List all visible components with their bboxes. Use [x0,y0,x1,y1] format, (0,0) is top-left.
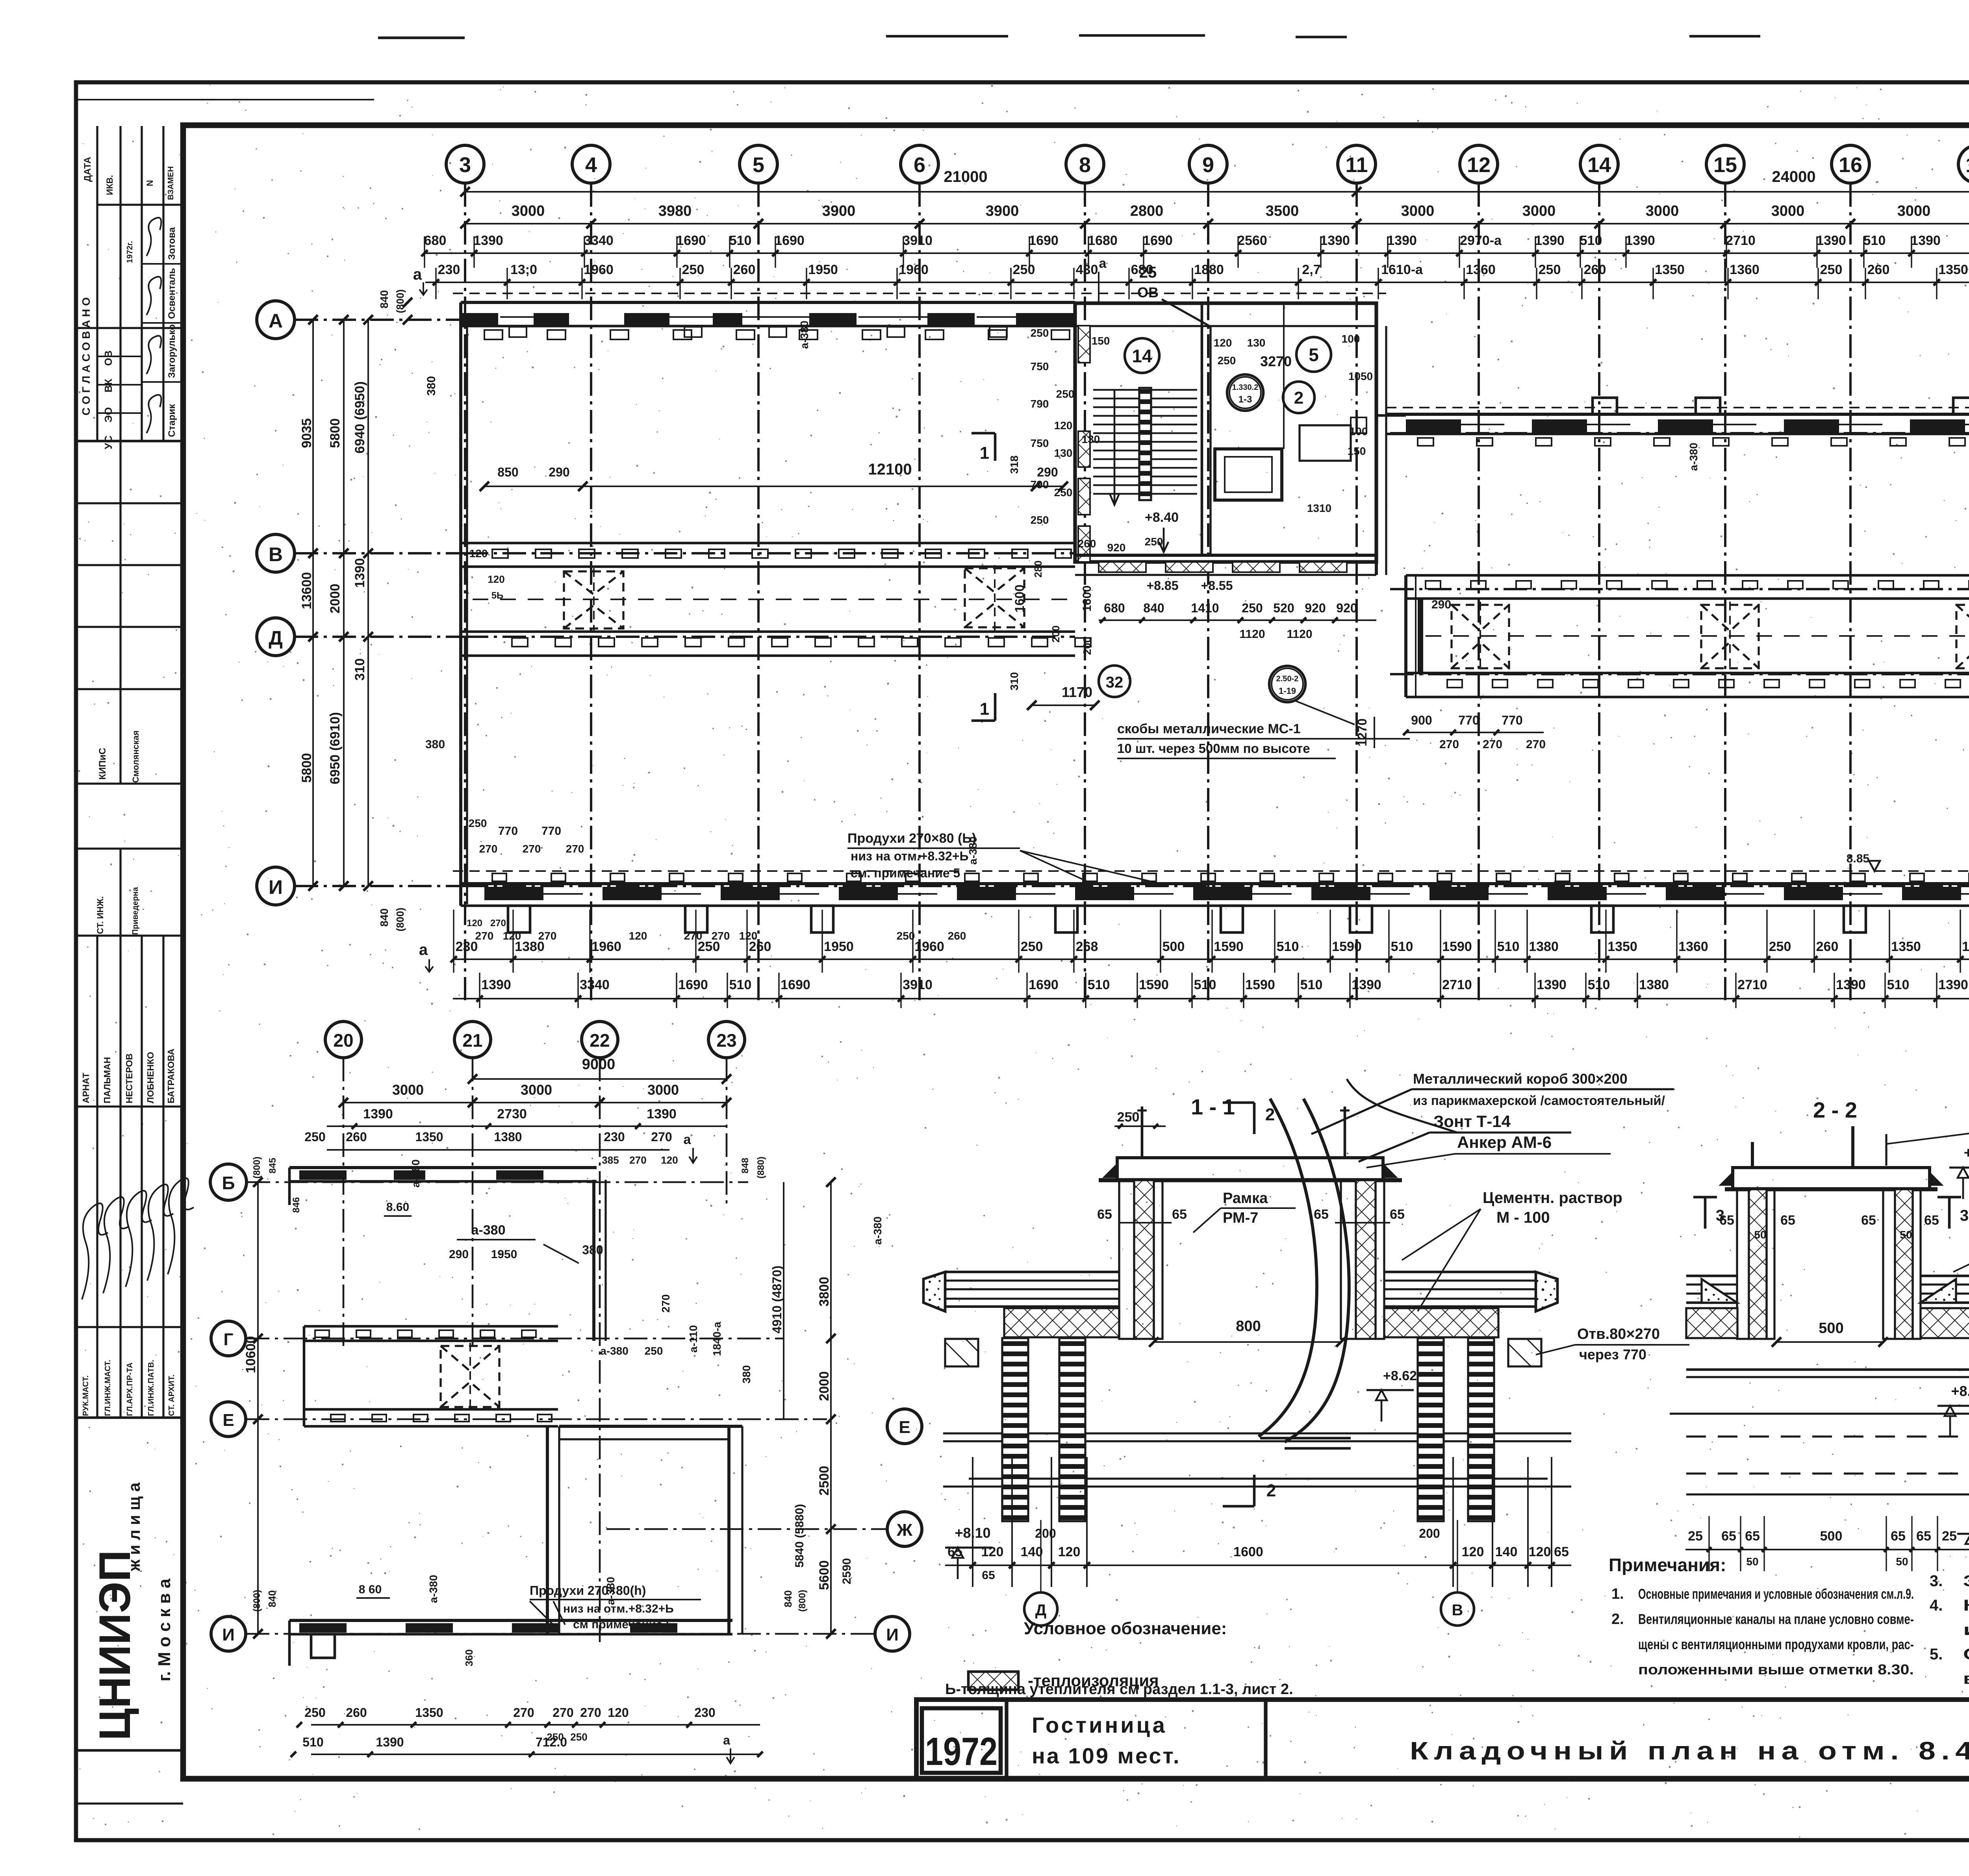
svg-text:770: 770 [541,825,561,838]
svg-text:250: 250 [1031,514,1049,526]
svg-text:1390: 1390 [1352,977,1381,992]
svg-text:ЦНИИЭП: ЦНИИЭП [90,1550,139,1741]
svg-text:270: 270 [553,1705,573,1720]
svg-text:Заделку анкера АМ-6 см.узел Б,: Заделку анкера АМ-6 см.узел Б, лист 6, р… [1963,1572,1969,1590]
svg-text:1390: 1390 [473,233,503,248]
svg-text:а-380: а-380 [871,1216,884,1245]
svg-text:840: 840 [266,1590,278,1607]
svg-text:680: 680 [424,233,447,248]
svg-text:Освенталь: Освенталь [167,268,177,319]
svg-text:9035: 9035 [299,418,314,448]
svg-text:250: 250 [1013,262,1035,277]
svg-text:ВК: ВК [102,379,114,393]
svg-text:3: 3 [459,153,471,177]
svg-text:Цементн. раствор: Цементн. раствор [1483,1189,1622,1207]
svg-text:2560: 2560 [1237,233,1267,248]
svg-text:50: 50 [1754,1229,1766,1241]
svg-text:3900: 3900 [986,203,1019,219]
svg-text:65: 65 [1390,1207,1405,1222]
svg-text:1590: 1590 [1245,977,1275,992]
svg-text:500: 500 [1820,1529,1843,1544]
svg-text:1390: 1390 [352,558,367,588]
svg-text:8.60: 8.60 [386,1201,409,1214]
svg-text:а-380: а-380 [471,1223,506,1238]
svg-text:140: 140 [1021,1544,1043,1559]
svg-text:СТ. АРХИТ.: СТ. АРХИТ. [167,1375,176,1416]
svg-text:3: 3 [1960,1207,1969,1224]
svg-text:скобы металлические МС-1: скобы металлические МС-1 [1117,721,1301,736]
svg-text:9000: 9000 [582,1056,616,1073]
svg-text:а-380: а-380 [427,1575,439,1603]
svg-text:845: 845 [267,1158,278,1173]
svg-text:250: 250 [1056,388,1075,400]
svg-text:790: 790 [1031,398,1049,410]
svg-text:РМ-7: РМ-7 [1223,1210,1258,1226]
svg-text:Приведерна: Приведерна [131,887,140,935]
svg-text:250: 250 [682,262,705,277]
svg-text:270: 270 [629,1154,646,1166]
svg-text:6950 (6910): 6950 (6910) [328,712,343,784]
svg-text:1390: 1390 [1816,233,1846,248]
svg-text:120: 120 [1058,1544,1081,1559]
svg-text:1390: 1390 [363,1107,393,1122]
svg-text:380: 380 [425,376,438,396]
svg-text:250: 250 [304,1705,325,1720]
svg-text:250: 250 [469,817,487,829]
svg-text:510: 510 [1887,977,1910,992]
svg-text:380: 380 [425,738,445,751]
svg-text:ж и л и щ а: ж и л и щ а [125,1482,143,1572]
svg-text:520: 520 [1273,601,1294,615]
svg-text:510: 510 [1391,939,1413,954]
svg-text:Загорулько: Загорулько [167,324,177,378]
svg-text:100: 100 [1342,333,1360,345]
svg-text:270: 270 [651,1130,672,1144]
svg-text:250: 250 [1539,262,1561,277]
svg-text:200: 200 [1035,1526,1056,1540]
svg-text:3000: 3000 [1522,203,1556,219]
svg-text:9: 9 [1202,153,1214,177]
svg-text:2710: 2710 [1442,977,1472,992]
svg-text:1360: 1360 [1678,939,1708,954]
svg-text:230: 230 [438,262,460,277]
svg-text:24000: 24000 [1772,168,1815,185]
svg-text:ПАЛЬМАН: ПАЛЬМАН [102,1057,112,1103]
svg-text:3340: 3340 [584,233,614,248]
svg-text:250: 250 [304,1130,325,1144]
svg-text:1390: 1390 [1911,233,1941,248]
svg-text:5800: 5800 [328,418,343,448]
svg-text:2.50-2: 2.50-2 [1276,675,1299,683]
svg-text:Металлический короб 300×200: Металлический короб 300×200 [1413,1071,1628,1087]
svg-text:+8.40: +8.40 [1145,510,1179,525]
svg-text:510: 510 [1194,977,1216,992]
svg-text:2970-а: 2970-а [1460,233,1502,248]
svg-text:см. примечание 5: см. примечание 5 [851,866,960,880]
svg-text:2710: 2710 [1737,977,1767,992]
svg-text:318: 318 [1008,456,1020,474]
svg-text:260: 260 [1867,262,1890,277]
svg-text:5600: 5600 [817,1560,832,1590]
svg-text:3270: 3270 [1260,353,1292,369]
svg-text:12100: 12100 [868,461,912,478]
svg-text:50: 50 [1900,1229,1912,1241]
svg-text:100: 100 [1350,425,1368,437]
svg-text:260: 260 [346,1130,367,1144]
svg-text:Ж: Ж [896,1520,912,1540]
svg-text:510: 510 [729,977,752,992]
svg-text:21: 21 [462,1030,482,1051]
svg-text:(800): (800) [394,289,406,313]
svg-text:5Ь: 5Ь [491,590,504,601]
svg-text:260: 260 [733,262,756,277]
svg-text:1360: 1360 [1730,262,1759,277]
svg-text:130: 130 [1054,447,1073,459]
svg-text:290: 290 [1431,598,1451,611]
svg-text:2500: 2500 [817,1466,832,1496]
svg-text:65: 65 [1172,1207,1187,1222]
svg-text:130: 130 [1082,433,1100,445]
svg-text:2000: 2000 [817,1371,832,1401]
svg-text:ИКВ.: ИКВ. [105,175,115,195]
svg-text:230: 230 [456,939,478,954]
svg-text:3800: 3800 [817,1277,832,1307]
svg-text:1350: 1350 [1938,262,1968,277]
svg-text:120: 120 [739,930,758,942]
svg-text:ОВ: ОВ [1137,284,1159,300]
svg-text:ГЛ.ИНЖ.ПАТВ.: ГЛ.ИНЖ.ПАТВ. [147,1360,156,1416]
svg-text:2000: 2000 [328,584,343,614]
svg-text:12: 12 [1467,153,1491,177]
svg-text:низ на отм.+8.32+Ь: низ на отм.+8.32+Ь [851,849,968,863]
svg-text:770: 770 [498,825,518,838]
svg-text:250: 250 [1218,354,1236,367]
svg-text:840: 840 [1143,601,1164,615]
svg-text:3000: 3000 [512,203,545,219]
svg-text:21000: 21000 [944,168,987,185]
svg-text:В: В [1452,1602,1463,1619]
svg-text:ЭО: ЭО [102,407,114,423]
svg-text:2,7: 2,7 [1302,262,1320,277]
svg-text:1.330.2: 1.330.2 [1232,383,1259,392]
svg-text:270: 270 [479,843,498,855]
svg-text:УС: УС [102,436,114,449]
svg-text:через 770: через 770 [1579,1346,1646,1363]
svg-text:1690: 1690 [676,233,706,248]
svg-text:270: 270 [1483,738,1502,751]
svg-text:из кирпича марки 75 на раствор: из кирпича марки 75 на растворе марки 50… [1963,1621,1969,1639]
svg-text:1410: 1410 [1191,601,1219,615]
svg-text:1590: 1590 [1332,939,1362,954]
svg-text:СТ. ИНЖ.: СТ. ИНЖ. [95,896,105,934]
svg-text:И: И [269,876,283,898]
svg-text:низ на отм.+8.32+Ь: низ на отм.+8.32+Ь [563,1602,674,1615]
svg-text:АРНАТ: АРНАТ [81,1073,91,1103]
svg-text:1350: 1350 [415,1130,443,1144]
svg-text:3000: 3000 [1646,203,1679,219]
svg-text:Отв.80×270: Отв.80×270 [1577,1326,1660,1342]
svg-text:8: 8 [1079,153,1091,177]
svg-text:1120: 1120 [1239,628,1265,641]
svg-text:5.: 5. [1930,1646,1943,1663]
svg-text:1360: 1360 [1466,262,1496,277]
svg-text:И: И [886,1625,899,1644]
svg-text:65: 65 [1861,1213,1876,1228]
svg-text:2730: 2730 [497,1107,527,1122]
svg-text:65: 65 [1891,1529,1906,1544]
svg-text:230: 230 [604,1130,625,1144]
svg-text:14: 14 [1587,153,1611,177]
svg-text:а-110: а-110 [687,1325,699,1353]
svg-text:840: 840 [378,908,390,927]
svg-text:ОВ: ОВ [102,350,114,366]
svg-text:+8.55: +8.55 [1201,578,1233,593]
svg-text:150: 150 [1092,335,1110,347]
svg-text:ГЛ.ИНЖ.МАСТ.: ГЛ.ИНЖ.МАСТ. [104,1360,112,1416]
svg-text:ЛОБНЕНКО: ЛОБНЕНКО [145,1052,156,1103]
svg-text:Е: Е [899,1418,910,1437]
svg-text:13;0: 13;0 [510,262,537,277]
svg-text:500: 500 [1819,1320,1843,1337]
svg-text:270: 270 [475,930,494,942]
svg-text:250: 250 [1242,601,1263,615]
svg-text:5: 5 [753,153,764,177]
svg-text:3340: 3340 [580,977,610,992]
svg-text:г. М о с к в а: г. М о с к в а [155,1578,174,1681]
svg-text:1390: 1390 [1537,977,1567,992]
svg-text:65: 65 [1314,1207,1329,1222]
svg-text:120: 120 [503,930,521,942]
svg-text:а: а [723,1733,730,1747]
svg-text:1950: 1950 [491,1248,517,1261]
svg-text:1.: 1. [1611,1586,1624,1602]
svg-text:140: 140 [1495,1544,1518,1559]
svg-text:280: 280 [1032,560,1044,577]
svg-text:750: 750 [1031,360,1049,373]
svg-text:5: 5 [1309,345,1319,365]
svg-text:2: 2 [1294,388,1303,408]
svg-text:Анкер АМ-6: Анкер АМ-6 [1457,1133,1552,1151]
svg-text:1350: 1350 [1891,939,1921,954]
svg-text:1350: 1350 [1607,939,1637,954]
svg-text:65: 65 [1745,1529,1760,1544]
svg-text:А: А [269,310,283,332]
svg-text:С О Г Л А С О В А Н О: С О Г Л А С О В А Н О [80,297,92,415]
svg-text:310: 310 [352,658,367,681]
svg-text:260: 260 [1816,939,1839,954]
svg-text:250: 250 [1021,939,1043,954]
svg-text:1390: 1390 [1387,233,1417,248]
svg-text:1590: 1590 [1214,939,1244,954]
svg-text:250: 250 [570,1731,587,1743]
svg-text:8 60: 8 60 [359,1583,382,1596]
svg-text:1380: 1380 [1529,939,1559,954]
svg-text:1880: 1880 [1194,262,1224,277]
svg-text:3900: 3900 [822,203,856,219]
svg-text:120: 120 [1214,337,1232,349]
svg-text:310: 310 [1008,672,1020,691]
svg-text:120: 120 [629,930,647,942]
svg-text:32: 32 [1106,674,1124,691]
svg-text:65: 65 [1721,1529,1736,1544]
svg-text:1972: 1972 [925,1730,997,1774]
svg-text:1 - 1: 1 - 1 [1191,1094,1235,1119]
svg-text:200: 200 [1081,637,1093,655]
svg-text:270: 270 [538,930,557,942]
svg-text:270: 270 [660,1294,672,1313]
svg-text:510: 510 [1088,977,1110,992]
svg-text:770: 770 [1458,713,1479,727]
svg-text:1-3: 1-3 [1239,394,1252,405]
svg-text:14: 14 [1132,346,1152,366]
svg-text:1690: 1690 [781,977,810,992]
svg-text:4: 4 [585,153,597,177]
svg-text:250: 250 [1145,536,1163,548]
svg-text:а-380: а-380 [967,836,979,865]
svg-text:10600: 10600 [243,1336,258,1374]
svg-text:120: 120 [1054,419,1073,432]
svg-text:120: 120 [608,1705,629,1720]
svg-text:120: 120 [661,1154,678,1166]
svg-text:на 109 мест.: на 109 мест. [1032,1743,1181,1768]
svg-text:500: 500 [1162,939,1185,954]
svg-text:510: 510 [1863,233,1886,248]
svg-text:25: 25 [1942,1529,1957,1544]
svg-text:900: 900 [1411,713,1432,727]
svg-text:Е: Е [222,1411,234,1430]
svg-text:1840-а: 1840-а [711,1322,723,1356]
svg-text:4910 (4870): 4910 (4870) [770,1266,784,1334]
svg-text:25: 25 [1688,1529,1703,1544]
svg-text:680: 680 [1104,601,1125,615]
svg-text:270: 270 [490,918,506,929]
svg-text:840: 840 [782,1590,794,1607]
svg-text:1-19: 1-19 [1279,686,1296,696]
svg-text:65: 65 [947,1544,962,1559]
svg-text:1310: 1310 [1307,502,1331,514]
svg-text:+8.62: +8.62 [1951,1383,1969,1399]
svg-text:10 шт. через 500мм по высоте: 10 шт. через 500мм по высоте [1117,741,1310,756]
svg-text:510: 510 [1580,233,1602,248]
svg-text:510: 510 [1300,977,1323,992]
svg-text:920: 920 [1336,601,1357,615]
svg-text:510: 510 [1497,939,1520,954]
svg-text:щены с вентиляционными продуха: щены с вентиляционными продухами кровли,… [1638,1636,1914,1652]
svg-text:846: 846 [291,1197,302,1213]
svg-text:120: 120 [467,918,482,929]
svg-text:920: 920 [1107,541,1126,554]
svg-text:23: 23 [716,1030,736,1051]
svg-text:ДАТА: ДАТА [82,157,93,182]
svg-text:+8.85: +8.85 [1147,578,1179,593]
svg-text:Вентиляционные каналы на плане: Вентиляционные каналы на плане условно с… [1638,1611,1914,1627]
svg-text:1390: 1390 [1938,977,1968,992]
svg-text:65: 65 [1554,1544,1569,1559]
svg-text:1960: 1960 [914,939,944,954]
svg-text:200: 200 [1050,625,1062,642]
svg-text:270: 270 [523,843,541,855]
svg-text:Основные примечания и условные: Основные примечания и условные обозначен… [1638,1586,1914,1602]
svg-text:15: 15 [1713,153,1737,177]
svg-text:3910: 3910 [903,233,933,248]
svg-text:150: 150 [1348,445,1366,457]
svg-text:1270: 1270 [1355,718,1369,746]
svg-text:БАТРАКОВА: БАТРАКОВА [166,1049,176,1103]
svg-text:270: 270 [684,930,703,942]
svg-text:380: 380 [740,1365,753,1384]
svg-text:1390: 1390 [481,977,511,992]
svg-text:а: а [419,941,428,958]
svg-text:1950: 1950 [808,262,838,277]
svg-text:3980: 3980 [658,203,692,219]
svg-text:Д: Д [1035,1602,1047,1619]
svg-text:360: 360 [463,1649,475,1666]
svg-text:270: 270 [712,930,730,942]
svg-text:Отметки продухов на фасаду при: Отметки продухов на фасаду принимать с у… [1963,1646,1969,1663]
svg-text:120: 120 [488,573,504,585]
svg-text:380: 380 [582,1243,603,1257]
svg-text:260: 260 [1584,262,1606,277]
svg-text:260: 260 [1078,538,1096,550]
svg-text:11: 11 [1345,153,1368,177]
svg-text:ГЛ.АРХ.ПР-ТА: ГЛ.АРХ.ПР-ТА [126,1363,134,1416]
svg-text:510: 510 [1588,977,1610,992]
svg-text:И: И [222,1625,235,1644]
svg-text:1120: 1120 [1287,628,1312,641]
svg-text:ВЗАМЕН: ВЗАМЕН [167,166,175,200]
svg-text:1350: 1350 [1655,262,1685,277]
svg-text:16: 16 [1839,153,1862,177]
svg-text:Зотова: Зотова [167,227,177,260]
svg-text:Кладочный план на отм.: Кладочный план на отм. 8.40 [1410,1737,1969,1765]
svg-text:840: 840 [378,290,390,309]
svg-text:Рамка: Рамка [1223,1190,1268,1207]
svg-text:1590: 1590 [1139,977,1169,992]
svg-text:(880): (880) [756,1157,766,1179]
svg-text:6: 6 [914,153,925,177]
svg-text:510: 510 [302,1735,323,1749]
svg-text:20: 20 [333,1030,353,1051]
svg-text:1390: 1390 [376,1735,404,1749]
svg-text:2710: 2710 [1726,233,1756,248]
svg-text:(800): (800) [797,1590,808,1612]
svg-text:1170: 1170 [1062,684,1092,700]
svg-text:712.0: 712.0 [536,1735,567,1749]
svg-text:1690: 1690 [678,977,708,992]
svg-text:1690: 1690 [1143,233,1173,248]
svg-text:N: N [145,180,155,186]
svg-text:1380: 1380 [494,1130,522,1144]
svg-text:65: 65 [1916,1529,1931,1544]
svg-text:(800): (800) [394,908,406,932]
svg-text:см примечание 5: см примечание 5 [573,1618,673,1631]
svg-text:1: 1 [980,699,989,719]
svg-text:5840 (5880): 5840 (5880) [793,1504,806,1568]
svg-text:120: 120 [981,1544,1004,1559]
svg-text:2590: 2590 [840,1558,853,1585]
svg-text:1390: 1390 [1320,233,1350,248]
svg-text:(800): (800) [252,1590,262,1612]
svg-text:250: 250 [1820,262,1843,277]
svg-text:290: 290 [549,465,569,479]
svg-text:1600: 1600 [1012,584,1027,612]
svg-text:из парикмахерской /самостоятел: из парикмахерской /самостоятельный/ [1413,1093,1665,1108]
svg-text:М - 100: М - 100 [1496,1209,1550,1226]
svg-text:1: 1 [980,443,989,463]
svg-text:1350: 1350 [415,1705,443,1720]
svg-text:3000: 3000 [392,1082,424,1098]
svg-text:800: 800 [1236,1318,1261,1335]
